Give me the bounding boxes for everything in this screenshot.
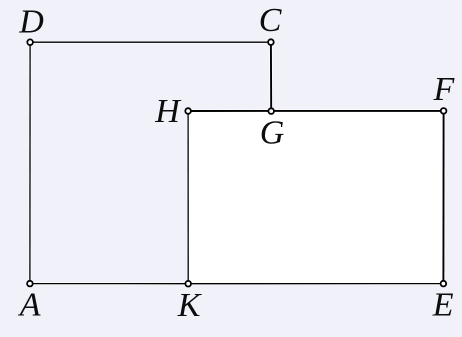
svg-text:A: A [18, 286, 41, 323]
svg-text:G: G [260, 115, 285, 152]
node K [185, 281, 191, 287]
white casing under lines [30, 42, 444, 284]
svg-text:H: H [154, 93, 182, 130]
wire H-G-F (horizontal, thick) [188, 110, 444, 112]
wire C-G (vertical, thick) [270, 42, 272, 111]
wire F-E (right, thick) [442, 111, 444, 284]
wire A-K (bottom left, thin) [30, 283, 188, 285]
svg-text:D: D [18, 3, 44, 40]
wire D-A (left, thin) [29, 42, 31, 283]
white rectangle K-H-F-E [188, 111, 443, 284]
wire D-C (top, thin) [30, 41, 271, 43]
svg-text:K: K [177, 287, 203, 324]
svg-text:C: C [259, 2, 282, 39]
node H [185, 108, 191, 114]
svg-text:E: E [432, 287, 454, 324]
node A [27, 281, 33, 287]
wire K-H (vertical, thin) [187, 111, 189, 284]
svg-text:F: F [433, 71, 456, 108]
node C [268, 39, 274, 45]
node G [268, 108, 274, 114]
node D [27, 39, 33, 45]
node E [441, 281, 447, 287]
node F [441, 108, 447, 114]
wire K-E (bottom right, thin) [188, 283, 443, 285]
